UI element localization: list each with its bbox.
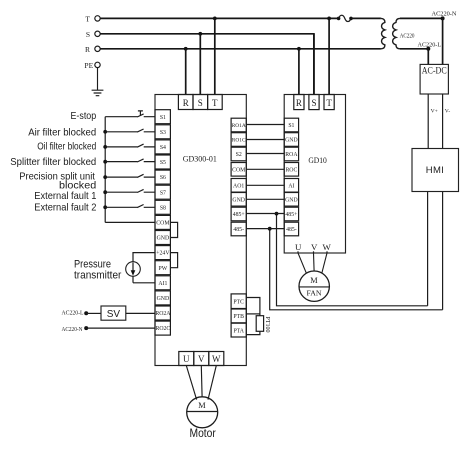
wire AC220-L to AC-DC: [427, 49, 429, 65]
svg-text:RO2A: RO2A: [155, 311, 171, 317]
wire R drop GD300: [185, 49, 187, 95]
svg-text:S8: S8: [160, 205, 166, 211]
svg-text:M: M: [310, 276, 318, 285]
wire AO1 to AI: [246, 184, 284, 186]
wire secondary top / net AC220-N: [400, 17, 443, 19]
terminal 485+ (GD300): [231, 207, 246, 221]
svg-text:E-stop: E-stop: [71, 111, 97, 122]
terminal W (GD300): [209, 352, 224, 366]
svg-text:PTA: PTA: [233, 328, 244, 334]
svg-text:GND: GND: [232, 197, 245, 203]
svg-text:S: S: [86, 30, 90, 39]
switch common bus: [104, 117, 106, 223]
terminal S8: [155, 200, 170, 214]
svg-text:485+: 485+: [285, 212, 297, 218]
terminal ROC: [284, 163, 298, 177]
inverter GD10: [284, 95, 345, 254]
terminal PTB: [231, 309, 246, 323]
terminal S5: [155, 155, 170, 169]
terminal S2: [231, 147, 246, 161]
switch S5: [103, 159, 155, 164]
wire S drop GD10: [313, 34, 315, 95]
svg-text:S7: S7: [160, 190, 166, 196]
transformer T1 secondary: [393, 18, 400, 48]
svg-text:FAN: FAN: [306, 288, 321, 297]
svg-text:485-: 485-: [286, 227, 297, 233]
inverter GD300-01: [155, 95, 246, 366]
node R to GD300: [184, 47, 188, 51]
terminal R (GD10): [294, 95, 304, 110]
wire V to fan: [313, 253, 316, 271]
svg-text:V: V: [311, 242, 318, 252]
svg-text:+24V: +24V: [156, 251, 170, 257]
svg-text:PE: PE: [84, 61, 93, 70]
terminal AO1: [231, 179, 246, 193]
resistor PT100: [256, 316, 270, 333]
svg-text:AC220: AC220: [400, 33, 415, 40]
svg-text:S: S: [311, 98, 316, 108]
terminal S7: [155, 185, 170, 199]
wire fuse to transformer: [351, 17, 381, 19]
jumper COM-GND: [170, 222, 177, 237]
node T to GD300: [213, 17, 217, 21]
wire COM row: [105, 221, 155, 223]
terminal GND (left upper): [155, 231, 170, 245]
svg-text:GND: GND: [285, 138, 298, 144]
terminal RO1A: [231, 118, 246, 132]
wire R drop GD10: [298, 49, 300, 95]
wire GND to GND: [246, 198, 284, 200]
wire PTA: [246, 331, 260, 334]
terminal COM (left): [155, 215, 170, 229]
svg-text:S6: S6: [160, 175, 166, 181]
wire T drop GD10: [328, 18, 330, 94]
svg-text:GD10: GD10: [308, 156, 327, 165]
terminal 485- (GD300): [231, 222, 246, 236]
label Pressure transmitter: [74, 259, 122, 282]
terminal R (GD300): [178, 95, 193, 110]
node R to GD10: [297, 47, 301, 51]
terminal GND (right): [231, 193, 246, 207]
terminal T (GD10): [324, 95, 334, 110]
wire T drop GD300: [214, 18, 216, 94]
svg-text:T: T: [85, 14, 90, 23]
svg-text:AI1: AI1: [158, 281, 167, 287]
terminal S4: [155, 140, 170, 154]
svg-text:GND: GND: [285, 197, 298, 203]
svg-text:S5: S5: [160, 160, 166, 166]
svg-text:PT100: PT100: [264, 317, 270, 333]
svg-text:S: S: [198, 98, 203, 108]
svg-text:485-: 485-: [233, 227, 244, 233]
terminal S1: [155, 110, 170, 124]
svg-text:blocked: blocked: [59, 180, 96, 191]
svg-text:U: U: [183, 354, 190, 364]
terminal PW: [155, 261, 170, 275]
wire 485+ to 485+: [246, 213, 284, 215]
svg-text:Splitter filter blocked: Splitter filter blocked: [10, 157, 96, 168]
svg-text:AO1: AO1: [233, 183, 244, 189]
svg-text:AC220-N: AC220-N: [432, 11, 458, 18]
terminal V (GD300): [194, 352, 209, 366]
terminal S3: [155, 125, 170, 139]
switch S4: [103, 144, 155, 149]
solenoid valve SV: [101, 306, 126, 320]
AC-DC converter: [420, 64, 448, 94]
svg-text:ROA: ROA: [285, 152, 298, 158]
wire U to motor: [186, 366, 196, 400]
svg-text:GD300-01: GD300-01: [183, 155, 217, 164]
wire AC220-L to SV: [86, 312, 101, 314]
node T to GD10: [327, 17, 331, 21]
wire HMI 485- down: [442, 192, 444, 310]
svg-text:PW: PW: [159, 266, 168, 272]
transformer T1 primary: [381, 18, 385, 48]
svg-text:W: W: [212, 354, 221, 364]
wire AC-DC V- to HMI: [442, 94, 444, 149]
wire W to motor: [208, 366, 216, 400]
terminal GND (left lower): [155, 291, 170, 305]
terminal GND (GD10 upper): [284, 133, 298, 147]
svg-text:W: W: [322, 242, 331, 252]
terminal COM (right): [231, 163, 246, 177]
svg-text:S1: S1: [160, 115, 166, 121]
terminal 485+ (GD10): [284, 207, 298, 221]
node 485- junction: [268, 227, 272, 231]
terminal U (GD300): [179, 352, 194, 366]
svg-text:M: M: [198, 401, 206, 410]
terminal PTA: [231, 323, 246, 337]
wire AC220-N to AC-DC: [442, 18, 444, 64]
label Precision split unit blocked: [19, 171, 96, 191]
terminal PTC: [231, 294, 246, 309]
wire 485- bus: [270, 229, 443, 310]
node 485+ junction: [275, 212, 279, 216]
terminal RO2C: [155, 321, 170, 335]
svg-text:R: R: [296, 98, 302, 108]
svg-text:S4: S4: [160, 145, 166, 151]
fuse FU: [337, 15, 353, 21]
pressure transmitter B1: [126, 253, 155, 283]
svg-text:GND: GND: [157, 296, 170, 302]
svg-text:V+: V+: [431, 109, 438, 115]
terminal GND (GD10 lower): [284, 193, 298, 207]
fan motor M2: [299, 271, 329, 301]
svg-text:V: V: [198, 354, 205, 364]
HMI U3: [412, 149, 459, 192]
pin V (GD10): [311, 242, 318, 253]
source terminal R: [85, 45, 100, 54]
terminal 485- (GD10): [284, 222, 298, 236]
svg-text:SV: SV: [107, 309, 121, 320]
wire RO1A to S1: [246, 124, 284, 126]
svg-text:RO1A: RO1A: [232, 123, 246, 129]
motor M1: [187, 397, 218, 428]
wire 485+ bus: [277, 214, 428, 306]
wire U to fan: [298, 253, 306, 273]
svg-text:External fault 1: External fault 1: [34, 191, 96, 202]
terminal T (GD300): [208, 95, 223, 110]
svg-text:AC-DC: AC-DC: [422, 66, 447, 76]
svg-text:COM: COM: [232, 167, 245, 173]
wire phase R: [100, 48, 381, 50]
svg-text:S1: S1: [288, 123, 294, 129]
wire PTC: [246, 298, 260, 316]
svg-text:HMI: HMI: [426, 165, 445, 176]
switch S8: [103, 205, 155, 210]
svg-text:transmitter: transmitter: [74, 269, 122, 281]
wire HMI 485+ down: [427, 192, 429, 306]
wire SV to RO2A: [126, 312, 155, 314]
wire S2 to ROA: [246, 153, 284, 155]
source terminal S: [86, 30, 100, 39]
svg-text:COM: COM: [156, 221, 169, 227]
terminal ROA: [284, 147, 298, 161]
svg-text:PTB: PTB: [233, 314, 244, 320]
wire secondary bottom / net AC220-L: [400, 48, 428, 50]
svg-text:AC220-L: AC220-L: [62, 310, 84, 316]
terminal S (GD300): [193, 95, 208, 110]
terminal AI: [284, 179, 298, 193]
svg-text:Motor: Motor: [190, 426, 216, 440]
pin U (GD10): [295, 242, 302, 253]
svg-text:R: R: [85, 45, 90, 54]
terminal AI1: [155, 276, 170, 290]
wire PTB: [246, 313, 260, 315]
svg-text:ROC: ROC: [285, 167, 297, 173]
terminal RO1C: [231, 133, 246, 147]
wire COM to ROC: [246, 168, 284, 170]
node S to GD300: [198, 32, 202, 36]
terminal S6: [155, 170, 170, 184]
node AC220-L: [426, 47, 430, 51]
svg-text:External fault 2: External fault 2: [34, 203, 96, 214]
svg-text:AC220-N: AC220-N: [62, 327, 84, 333]
svg-text:RO2C: RO2C: [155, 326, 170, 332]
svg-text:AI: AI: [288, 183, 294, 189]
source terminal T: [85, 14, 100, 23]
source terminal PE: [84, 61, 100, 70]
wire AC-DC V+ to HMI: [427, 94, 429, 149]
node AC220-L tap: [84, 311, 88, 315]
wire V to motor: [200, 366, 203, 397]
svg-text:GND: GND: [157, 236, 170, 242]
svg-text:S2: S2: [236, 152, 242, 158]
jumper +24V-PW: [170, 253, 177, 268]
wire RO1C to GND: [246, 139, 284, 141]
wire S drop GD300: [199, 34, 201, 95]
wire 485- to 485-: [246, 228, 284, 230]
svg-text:Air filter blocked: Air filter blocked: [28, 127, 96, 138]
wire phase T: [100, 17, 338, 19]
switch S1 E-stop: [105, 111, 155, 117]
svg-text:PTC: PTC: [233, 299, 244, 305]
svg-text:R: R: [183, 98, 189, 108]
svg-text:485+: 485+: [233, 212, 245, 218]
node AC220-N tap: [84, 326, 88, 330]
svg-text:T: T: [326, 98, 332, 108]
ground: [92, 68, 104, 96]
switch S6: [103, 174, 155, 179]
switch S3: [103, 129, 155, 134]
terminal S (GD10): [309, 95, 319, 110]
wire W to fan: [322, 253, 327, 273]
svg-text:Oil filter blocked: Oil filter blocked: [37, 142, 96, 153]
svg-text:RO1C: RO1C: [232, 138, 246, 144]
switch S7: [103, 189, 155, 194]
wire AC220-N to RO2C: [86, 327, 155, 329]
terminal +24V: [155, 246, 170, 260]
pin W (GD10): [322, 242, 331, 253]
wire phase S: [100, 34, 314, 95]
svg-text:U: U: [295, 242, 302, 252]
svg-text:T: T: [212, 98, 218, 108]
svg-text:S3: S3: [160, 130, 166, 136]
node AC220-N: [441, 16, 445, 20]
svg-text:V-: V-: [445, 109, 451, 115]
terminal RO2A: [155, 306, 171, 320]
terminal S1 (GD10): [284, 118, 298, 132]
